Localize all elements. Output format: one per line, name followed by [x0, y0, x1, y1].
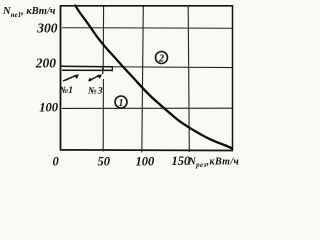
circled number 2	[156, 52, 168, 65]
main descending curve	[75, 6, 232, 149]
inset upper wire emphasis	[61, 65, 113, 67]
axis frame: right border	[232, 6, 234, 151]
svg-text:100: 100	[136, 154, 156, 168]
paper background	[0, 0, 241, 171]
horizontal gridline 100	[62, 107, 232, 109]
horizontal gridline 300	[62, 27, 232, 30]
axis frame: left axis	[60, 6, 62, 151]
pantograph symbol 2	[89, 74, 103, 81]
inset right end tick	[111, 67, 113, 72]
vertical gridline 50	[102, 6, 104, 152]
svg-text:200: 200	[35, 55, 57, 70]
axis frame: bottom x-axis	[60, 149, 233, 152]
svg-text:Nрез,кВт/ч: Nрез,кВт/ч	[188, 157, 240, 170]
inset contact-wire line	[62, 69, 113, 71]
circled number 1	[115, 96, 127, 109]
svg-text:50: 50	[98, 154, 111, 168]
vertical gridline 150	[188, 6, 189, 152]
svg-text:№1: №1	[60, 86, 73, 96]
vertical gridline 100	[142, 6, 144, 153]
horizontal gridline 200	[61, 66, 232, 67]
pantograph 2 mast tick	[102, 67, 104, 74]
axis frame: top border	[60, 5, 233, 7]
svg-text:0: 0	[53, 154, 60, 168]
pantograph symbol 1	[63, 74, 79, 81]
svg-text:2: 2	[158, 54, 164, 65]
svg-text:100: 100	[39, 100, 59, 114]
svg-text:1: 1	[119, 98, 124, 109]
svg-text:300: 300	[36, 21, 58, 36]
svg-text:№3: №3	[88, 87, 103, 97]
